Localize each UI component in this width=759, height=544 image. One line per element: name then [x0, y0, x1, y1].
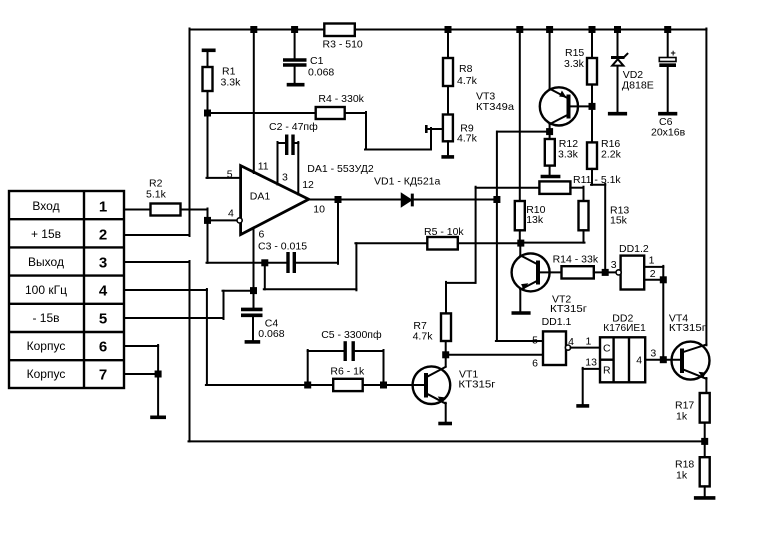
- ground VT2 emitter: [512, 311, 531, 315]
- svg-text:Корпус: Корпус: [27, 367, 66, 381]
- svg-text:2: 2: [99, 227, 107, 244]
- svg-text:4.7k: 4.7k: [457, 133, 478, 145]
- DD1.1 output bubble: [565, 345, 570, 350]
- svg-text:C1: C1: [310, 55, 324, 67]
- wire VT3 collector node to DD1.1 pin5: [496, 132, 543, 341]
- capacitor C4: [241, 309, 263, 340]
- ground terminal R1 top: [202, 48, 216, 52]
- svg-text:3.3k: 3.3k: [564, 58, 585, 70]
- svg-text:4.7k: 4.7k: [457, 75, 478, 87]
- svg-text:Д818Е: Д818Е: [622, 80, 654, 92]
- label VT3 КТ349а: [476, 91, 514, 114]
- ground C6: [658, 112, 677, 116]
- resistor R16: [587, 142, 605, 272]
- svg-text:C2 - 47пф: C2 - 47пф: [269, 121, 318, 133]
- junction pins 6-7: [155, 371, 162, 378]
- node R5/R10/R13/VT2: [517, 240, 524, 247]
- ground VT1 emitter: [438, 422, 452, 426]
- wire R1 to DA1 pin5: [207, 177, 241, 179]
- svg-text:12: 12: [302, 179, 314, 191]
- transistor VT1: [413, 366, 451, 421]
- node C5/R6 left: [304, 382, 311, 389]
- transistor VT4: [672, 29, 710, 394]
- node -15v / pin6 junction: [250, 287, 257, 294]
- resistor R6: [333, 379, 424, 391]
- svg-text:C3 - 0.015: C3 - 0.015: [258, 241, 307, 253]
- wire pin5 -15v line: [124, 291, 254, 319]
- label VT2 КТ315г: [550, 294, 587, 316]
- resistor R15: [587, 29, 597, 143]
- node output/C3: [335, 196, 342, 203]
- wire pin4 100kHz line: [124, 289, 333, 385]
- node C6 rail: [664, 26, 671, 33]
- wire R11 left to R7: [446, 187, 476, 314]
- label R12 3.3k: [558, 138, 579, 161]
- node R10 rail: [516, 26, 523, 33]
- svg-text:Корпус: Корпус: [27, 339, 66, 353]
- svg-text:DA1: DA1: [250, 191, 271, 203]
- node R14/R16/DD1.2 pin3: [602, 269, 609, 276]
- label C4 0.068: [258, 318, 284, 341]
- transistor VT3: [540, 29, 592, 140]
- capacitor C3: [207, 200, 339, 274]
- wire VT3 collector to R12: [497, 131, 550, 133]
- svg-text:20х16в: 20х16в: [651, 127, 686, 139]
- resistor R3: [324, 24, 355, 37]
- node DD1.2 outputs tie: [660, 276, 667, 283]
- svg-text:4: 4: [636, 355, 642, 367]
- node R15 rail: [589, 26, 596, 33]
- label R9 4.7k: [457, 123, 478, 145]
- svg-text:6: 6: [99, 339, 107, 356]
- svg-text:- 15в: - 15в: [32, 311, 59, 325]
- svg-text:+ 15в: + 15в: [31, 227, 61, 241]
- pin 6 wire: [253, 228, 255, 308]
- svg-text:1: 1: [586, 336, 592, 348]
- label VT4 КТ315г: [669, 313, 706, 335]
- label R2 5.1k: [146, 178, 167, 201]
- svg-text:Вход: Вход: [32, 199, 59, 213]
- svg-text:КТ315г: КТ315г: [669, 322, 706, 334]
- svg-text:3: 3: [282, 172, 288, 184]
- svg-text:5: 5: [99, 311, 107, 328]
- node DA1 pin11 rail: [250, 26, 257, 33]
- node R8 rail: [445, 26, 452, 33]
- wire pin3 output to bottom rail: [124, 261, 705, 441]
- ground R18: [694, 496, 716, 500]
- svg-text:C5 - 3300пф: C5 - 3300пф: [321, 329, 382, 341]
- svg-text:C: C: [603, 343, 611, 355]
- wire DD1.2 outputs: [644, 266, 663, 360]
- node VD1 cathode: [493, 196, 500, 203]
- node R4/R1 junction: [204, 110, 211, 117]
- svg-text:1: 1: [99, 199, 107, 216]
- svg-text:6: 6: [532, 358, 538, 370]
- svg-text:3: 3: [611, 259, 617, 271]
- svg-text:5: 5: [532, 335, 538, 347]
- svg-text:1: 1: [649, 255, 655, 267]
- svg-text:100 кГц: 100 кГц: [25, 283, 67, 297]
- ground R9: [441, 155, 454, 159]
- diode VD1: [402, 194, 497, 207]
- svg-text:5: 5: [227, 169, 233, 181]
- pin 12 wire: [297, 142, 299, 195]
- svg-text:10: 10: [313, 204, 325, 216]
- pin 11 supply wire: [253, 29, 255, 174]
- label R13 15k: [610, 205, 629, 227]
- node VD2 rail: [614, 26, 621, 33]
- svg-text:R14 - 33k: R14 - 33k: [553, 254, 599, 266]
- svg-text:R11 - 5.1k: R11 - 5.1k: [573, 174, 621, 186]
- label VD2 Д818Е: [622, 69, 654, 92]
- resistor R12: [545, 139, 555, 175]
- label R17 1k: [675, 400, 694, 423]
- label R15 3.3k: [564, 47, 585, 70]
- ground R12: [541, 175, 561, 179]
- svg-text:6: 6: [259, 229, 265, 241]
- node DD1.2 to VT4 base line: [660, 356, 667, 363]
- node C3/R5 branch: [261, 259, 268, 266]
- pin 10 output wire: [309, 199, 402, 201]
- svg-text:КТ349а: КТ349а: [476, 101, 514, 113]
- wire pin7 ground: [124, 373, 158, 375]
- trimmer R9: [426, 115, 453, 156]
- capacitor C1: [283, 29, 307, 84]
- node C1 rail: [291, 26, 298, 33]
- node C5/R6 right: [380, 382, 387, 389]
- wire DD2 R input to ground: [583, 368, 600, 404]
- counter DD2: [600, 337, 645, 382]
- svg-text:КТ315г: КТ315г: [550, 303, 587, 315]
- node VT3 base R15/R16: [589, 103, 596, 110]
- svg-text:4.7k: 4.7k: [413, 331, 434, 343]
- label C1 0.068: [308, 55, 334, 79]
- svg-text:11: 11: [258, 161, 269, 173]
- node VT3 emitter rail: [546, 26, 553, 33]
- resistor R1: [203, 52, 213, 178]
- wire pin6 ground: [124, 345, 158, 417]
- svg-text:3: 3: [99, 255, 107, 272]
- svg-text:DA1 - 553УД2: DA1 - 553УД2: [307, 163, 374, 175]
- resistor R5: [427, 237, 521, 250]
- label R8 4.7k: [457, 63, 478, 87]
- wire pin2 +15v feed: [124, 29, 190, 237]
- svg-text:R8: R8: [459, 63, 473, 75]
- resistor R8: [443, 29, 453, 115]
- wire C3 node to R5: [264, 243, 428, 290]
- svg-text:К176ИЕ1: К176ИЕ1: [603, 322, 646, 334]
- node VT3 collector branch: [546, 128, 553, 135]
- label R7 4.7k: [413, 320, 434, 343]
- svg-text:R5 - 10k: R5 - 10k: [424, 226, 464, 238]
- wire DD1.1 out to DD2 C input: [571, 347, 600, 349]
- svg-text:3.3k: 3.3k: [558, 149, 579, 161]
- svg-text:R3 - 510: R3 - 510: [323, 39, 363, 51]
- zener VD2: [611, 29, 627, 113]
- svg-text:КТ315г: КТ315г: [458, 379, 495, 391]
- svg-text:1k: 1k: [676, 411, 688, 423]
- op-amp DA1: [241, 166, 309, 235]
- svg-text:R6 - 1k: R6 - 1k: [330, 366, 365, 378]
- transistor VT2: [512, 243, 562, 312]
- connector table: [9, 191, 124, 388]
- svg-text:R: R: [603, 365, 611, 377]
- ground C1: [287, 83, 305, 87]
- svg-text:DD1.2: DD1.2: [619, 243, 649, 255]
- node output divider: [701, 438, 708, 445]
- label R10 13k: [526, 204, 545, 226]
- svg-text:3: 3: [650, 348, 656, 360]
- resistor R7: [441, 313, 451, 366]
- svg-text:2: 2: [650, 268, 656, 280]
- ground pins 6-7: [150, 415, 166, 419]
- element DD1.1: [543, 331, 566, 365]
- svg-text:4: 4: [228, 208, 234, 220]
- svg-text:+: +: [671, 48, 676, 58]
- ground DD2 R: [576, 404, 589, 408]
- label R16 2.2k: [601, 138, 622, 161]
- svg-text:5.1k: 5.1k: [146, 189, 167, 201]
- svg-text:0.068: 0.068: [258, 328, 284, 340]
- svg-text:VD1 - КД521а: VD1 - КД521а: [374, 176, 441, 188]
- ground VD2: [608, 112, 627, 116]
- wire to DA1 pin4: [208, 219, 237, 221]
- node R7/VT1 collector/DD1.1 pin6: [442, 351, 449, 358]
- resistor R4: [208, 107, 432, 150]
- pin 3 wire: [277, 142, 279, 185]
- svg-text:3.3k: 3.3k: [221, 77, 242, 89]
- wire node to DD1.1 pin6: [446, 354, 543, 356]
- label R1 3.3k: [221, 66, 242, 89]
- svg-text:2.2k: 2.2k: [601, 149, 622, 161]
- ground C4: [245, 340, 261, 344]
- element DD1.2: [616, 256, 644, 290]
- svg-text:R4 - 330k: R4 - 330k: [318, 93, 364, 105]
- label C6 20х16в: [651, 116, 686, 139]
- node inverting input: [204, 217, 211, 224]
- resistor R11: [476, 181, 584, 201]
- pin 4 bubble: [237, 218, 242, 223]
- resistor R10: [515, 29, 525, 244]
- svg-text:Выход: Выход: [28, 255, 64, 269]
- svg-text:4: 4: [99, 283, 108, 300]
- wire DD2 output to VT4 base: [645, 359, 680, 361]
- label VT1 КТ315г: [458, 369, 495, 391]
- capacitor C2: [278, 135, 299, 156]
- label R18 1k: [675, 459, 694, 482]
- resistor R14: [562, 266, 618, 278]
- svg-text:13: 13: [585, 357, 597, 369]
- resistor R13: [520, 201, 589, 243]
- svg-text:1k: 1k: [676, 470, 688, 482]
- resistor R17: [700, 393, 710, 457]
- capacitor C5: [308, 341, 384, 385]
- svg-text:15k: 15k: [610, 215, 628, 227]
- svg-text:DD1.1: DD1.1: [542, 316, 572, 328]
- resistor R2: [124, 204, 208, 263]
- resistor R18: [700, 457, 710, 496]
- svg-text:0.068: 0.068: [308, 67, 334, 79]
- capacitor C6 electrolytic: [659, 29, 676, 113]
- wire +15v top rail: [190, 29, 707, 31]
- svg-text:13k: 13k: [526, 214, 544, 226]
- svg-text:7: 7: [99, 367, 107, 384]
